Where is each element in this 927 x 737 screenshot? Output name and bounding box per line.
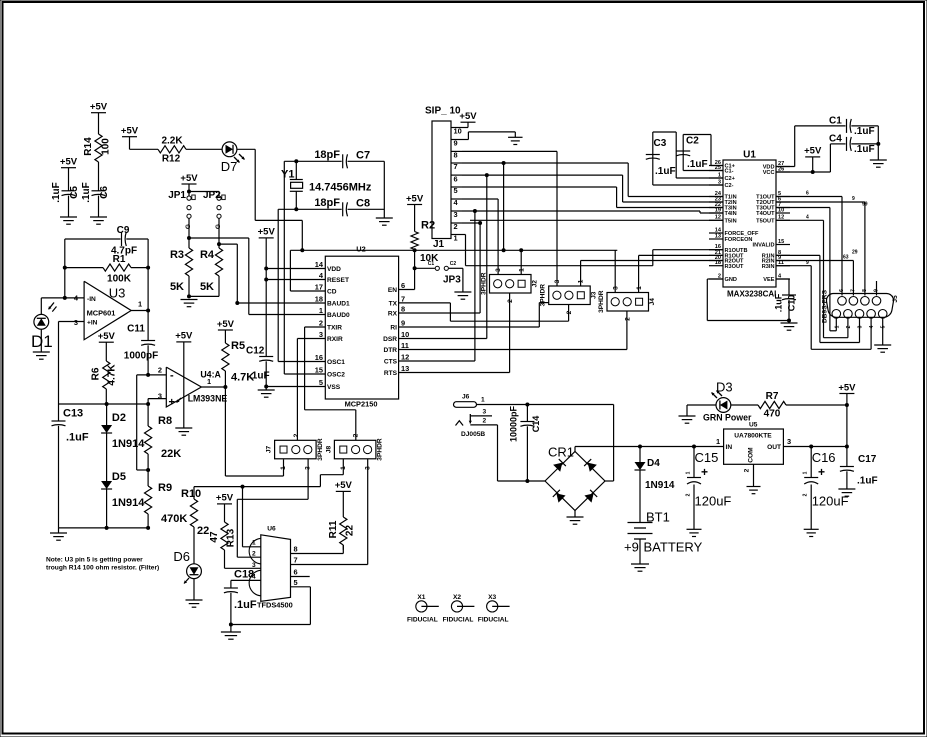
- svg-text:1000pF: 1000pF: [124, 351, 158, 362]
- svg-text:D3: D3: [716, 380, 733, 395]
- svg-text:47: 47: [209, 531, 220, 543]
- svg-text:8: 8: [454, 151, 458, 160]
- svg-text:VEE: VEE: [763, 277, 774, 283]
- svg-text:2: 2: [454, 222, 458, 231]
- resistor R5 4.7K: [222, 340, 254, 384]
- svg-text:1: 1: [207, 377, 211, 386]
- junction (pin7/CD drop): [502, 161, 506, 165]
- svg-text:VDD: VDD: [327, 266, 341, 273]
- svg-text:2: 2: [293, 433, 300, 437]
- svg-text:C2-: C2-: [725, 183, 734, 189]
- wire U4 out down to J7: [225, 387, 283, 476]
- svg-text:J5: J5: [892, 295, 899, 303]
- svg-text:GND: GND: [725, 277, 737, 283]
- wire DB9 pin5 to gnd: [882, 318, 884, 345]
- svg-text:EN: EN: [388, 287, 397, 294]
- junction (VCC +5V): [811, 170, 815, 174]
- wire C1 right: [851, 126, 878, 160]
- svg-text:1N914: 1N914: [645, 480, 675, 491]
- bridge rectifier CR1: [545, 445, 605, 511]
- diode D4 1N914: [635, 447, 675, 523]
- power +5V (J1.10): [459, 111, 477, 128]
- svg-text:RX: RX: [388, 311, 398, 318]
- svg-text:+5V: +5V: [335, 480, 353, 491]
- svg-text:FIDUCIAL: FIDUCIAL: [407, 617, 438, 624]
- svg-text:COM: COM: [748, 447, 755, 463]
- wire J6 pin1 down: [605, 405, 614, 482]
- svg-text:6: 6: [294, 568, 298, 577]
- diode D5 1N914: [101, 471, 145, 528]
- junction (C10 gnd): [787, 319, 791, 323]
- wire U5 COM to gnd: [753, 464, 755, 486]
- resistor R6 4.7K: [91, 361, 118, 389]
- wire DTR: [399, 311, 627, 350]
- net labels (DB9 wires): [806, 191, 868, 266]
- wire CD/EN net: [290, 249, 617, 251]
- svg-text:Note: U3 pin 5 is getting powe: Note: U3 pin 5 is getting power: [46, 557, 143, 564]
- svg-text:+5V: +5V: [98, 331, 116, 342]
- wire OSC1 riser: [277, 209, 279, 361]
- svg-text:U3: U3: [109, 286, 126, 301]
- svg-text:12: 12: [401, 353, 409, 362]
- junction (RX drop): [478, 221, 482, 225]
- wire T3OUT: [776, 208, 836, 331]
- resistor R8 22K: [145, 404, 182, 470]
- svg-text:FORCEON: FORCEON: [725, 237, 753, 243]
- svg-text:22: 22: [345, 525, 356, 537]
- svg-text:120uF: 120uF: [695, 494, 732, 509]
- svg-text:T5OUT: T5OUT: [756, 219, 775, 225]
- ground (DB9): [874, 345, 891, 352]
- svg-text:LM393NE: LM393NE: [188, 394, 228, 404]
- svg-text:Y1: Y1: [281, 169, 294, 181]
- wire U6.8 to R11: [291, 545, 344, 554]
- connector J7 3PHDR: [266, 433, 324, 470]
- junction (C11 bottom): [146, 373, 150, 377]
- junction (J2 pin1 join): [519, 248, 523, 252]
- connector J1 SIP_10: [425, 106, 462, 251]
- wire C6 to ground: [98, 196, 100, 217]
- svg-text:MCP601: MCP601: [87, 309, 116, 318]
- svg-text:15: 15: [315, 366, 323, 375]
- svg-text:+5V: +5V: [838, 382, 856, 393]
- junction (C18 bottom): [229, 623, 233, 627]
- svg-text:VCC: VCC: [763, 170, 775, 176]
- capacitor C7 18pF: [314, 149, 370, 168]
- svg-text:5K: 5K: [170, 281, 184, 293]
- wire U6.1 up: [243, 487, 261, 547]
- capacitor C10 .1uF: [774, 293, 797, 320]
- svg-text:2.2K: 2.2K: [161, 136, 183, 147]
- svg-text:5K: 5K: [200, 281, 214, 293]
- capacitor C11 1000pF: [124, 311, 158, 375]
- svg-text:C6: C6: [99, 186, 110, 199]
- wire T5OUT: [776, 220, 848, 337]
- svg-text:+5V: +5V: [216, 493, 234, 504]
- svg-text:+5V: +5V: [60, 157, 78, 168]
- capacitor C2 .1uF: [676, 135, 711, 171]
- svg-text:R3IN: R3IN: [762, 264, 775, 270]
- svg-text:C8: C8: [356, 198, 370, 210]
- junction (rail/+5V): [845, 445, 849, 449]
- wire D7 to CD/EN net: [237, 149, 302, 250]
- svg-text:C16: C16: [812, 450, 836, 465]
- svg-text:2: 2: [803, 493, 809, 496]
- svg-text:1N914: 1N914: [112, 497, 145, 509]
- power +5V (R13): [216, 493, 234, 522]
- svg-text:2: 2: [744, 468, 751, 472]
- svg-text:1: 1: [716, 437, 720, 446]
- wire C2+ line: [676, 177, 723, 179]
- svg-text:U5: U5: [749, 422, 758, 429]
- wire T5IN line: [470, 219, 723, 221]
- ground (R3/R4): [181, 300, 198, 307]
- power +5V (R6): [98, 331, 116, 361]
- svg-text:1: 1: [319, 306, 323, 315]
- wire J8.1 to R10: [194, 459, 343, 487]
- svg-text:OUT: OUT: [767, 444, 781, 451]
- wire gnd to D3: [687, 404, 716, 406]
- svg-text:3PHDR: 3PHDR: [377, 438, 384, 461]
- svg-text:GRN Power: GRN Power: [703, 412, 752, 422]
- svg-text:11: 11: [401, 341, 409, 350]
- wire feedback right to output: [147, 268, 149, 310]
- svg-text:2: 2: [483, 417, 487, 424]
- wire C8 right: [348, 208, 385, 210]
- wire DSR: [399, 175, 487, 338]
- svg-text:RI: RI: [390, 325, 397, 332]
- ground (J1.9): [508, 137, 523, 144]
- connector J2 3PHDR: [481, 268, 539, 303]
- wire R13 to U6.3: [225, 550, 261, 568]
- wire feedback top: [65, 238, 121, 240]
- svg-text:C1: C1: [428, 261, 435, 267]
- svg-text:18pF: 18pF: [314, 149, 340, 161]
- svg-text:1N914: 1N914: [112, 438, 145, 450]
- wire feedback left: [64, 239, 66, 298]
- svg-text:C10: C10: [787, 295, 797, 312]
- ground (C10): [781, 321, 798, 331]
- svg-text:7: 7: [294, 556, 298, 565]
- junction (CD bus join): [502, 248, 506, 252]
- svg-text:+5V: +5V: [175, 331, 193, 342]
- svg-text:X2: X2: [453, 594, 461, 601]
- svg-text:R5: R5: [231, 340, 245, 352]
- svg-text:R2: R2: [421, 220, 435, 232]
- wire TXIR: [305, 327, 356, 440]
- svg-text:3PHDR: 3PHDR: [598, 290, 605, 313]
- junction (RESET rail): [264, 278, 268, 282]
- svg-text:8: 8: [862, 289, 868, 292]
- svg-text:6: 6: [401, 281, 405, 290]
- wire R1OUTB line: [653, 249, 723, 251]
- wire U3 pin3: [59, 322, 85, 405]
- svg-text:7: 7: [401, 294, 405, 303]
- svg-text:3: 3: [454, 210, 458, 219]
- svg-text:R3: R3: [170, 249, 184, 261]
- svg-text:CD: CD: [327, 289, 337, 296]
- svg-text:3: 3: [612, 286, 619, 290]
- svg-text:J7: J7: [266, 446, 273, 454]
- wire J4.3 up: [614, 250, 616, 292]
- svg-text:4.7K: 4.7K: [107, 364, 118, 386]
- svg-text:1: 1: [280, 466, 287, 470]
- junction (R1 left): [63, 266, 67, 270]
- wire J2.1 up: [520, 250, 522, 274]
- jumper JP3: [415, 261, 463, 292]
- ground (C15): [687, 529, 702, 536]
- wire R7 to +5V: [786, 404, 847, 406]
- wire D1 to ground: [40, 329, 42, 352]
- svg-text:4: 4: [806, 214, 809, 220]
- svg-text:6: 6: [806, 191, 809, 197]
- wire R3 node to BAUD0 column: [189, 238, 249, 315]
- power +5V (R14 rail): [90, 102, 108, 135]
- svg-text:14.7456MHz: 14.7456MHz: [309, 182, 372, 194]
- svg-text:D6: D6: [173, 549, 190, 564]
- svg-text:U2: U2: [356, 245, 365, 254]
- wire R14 to C6: [98, 162, 100, 191]
- resistor R7 470: [758, 391, 786, 420]
- svg-text:C5: C5: [69, 186, 80, 199]
- junction (DSR drop): [485, 173, 489, 177]
- capacitor C9 4.7pF: [111, 225, 137, 257]
- capacitor C18 .1uF: [224, 569, 257, 625]
- junction (C14 top): [525, 403, 529, 407]
- junction (C15 top): [692, 445, 696, 449]
- junction (C4/gnd): [876, 142, 880, 146]
- svg-text:RXIR: RXIR: [327, 336, 343, 343]
- junction (U3 out): [146, 309, 150, 313]
- wire CTS: [399, 211, 475, 361]
- svg-text:BATTERY: BATTERY: [644, 540, 703, 555]
- wire RX: [399, 223, 481, 313]
- wire D1 to pin4: [41, 298, 65, 315]
- svg-text:R10: R10: [181, 488, 201, 500]
- resistor R9 470K: [145, 470, 188, 528]
- wire D6 to gnd: [193, 579, 195, 600]
- power +5V (R11): [335, 480, 353, 517]
- junction (R6/D2): [105, 402, 109, 406]
- ground (BT1): [631, 564, 649, 571]
- ground (C5): [60, 217, 77, 224]
- power +5V (U2 rail): [258, 227, 276, 357]
- svg-text:C2+: C2+: [725, 176, 736, 182]
- wire J1.3 to T4IN: [462, 211, 723, 213]
- ground (C17): [838, 489, 855, 496]
- LED D3: [703, 380, 752, 423]
- svg-text:RTS: RTS: [384, 370, 398, 377]
- svg-text:BAUD1: BAUD1: [327, 301, 350, 308]
- svg-text:TXIR: TXIR: [327, 325, 342, 332]
- IC U1 MAX3238CAI: [709, 150, 790, 299]
- wire U3 pin4: [65, 297, 84, 299]
- junction (D7 join): [300, 248, 304, 252]
- ground (C6): [90, 217, 107, 224]
- svg-text:2: 2: [158, 366, 162, 375]
- connector J3 3PHDR: [540, 279, 598, 314]
- svg-text:MAX3238CAI: MAX3238CAI: [727, 290, 776, 299]
- power +5V (R12): [121, 126, 139, 150]
- wire J3.1 to R2OUT: [581, 261, 723, 287]
- svg-text:J6: J6: [462, 393, 470, 400]
- svg-text:C1-: C1-: [725, 169, 734, 175]
- svg-text:MCP2150: MCP2150: [345, 400, 378, 409]
- ground (C1/C4): [870, 160, 887, 167]
- svg-text:3: 3: [74, 318, 78, 327]
- wire BAUD1: [235, 301, 325, 305]
- power +5V (JP1/JP2): [180, 173, 198, 196]
- svg-text:D5: D5: [112, 471, 126, 483]
- wire R6 bottom: [105, 389, 107, 404]
- svg-text:7: 7: [850, 289, 856, 292]
- svg-text:4: 4: [869, 325, 875, 328]
- junction (D5 bottom): [105, 526, 109, 530]
- ground (C7/C8): [376, 218, 393, 225]
- wire OSC1: [278, 361, 325, 363]
- ground (D6): [186, 600, 203, 607]
- connector J6 DJ005B: [454, 393, 614, 438]
- wire JP2 to R4 node: [218, 218, 220, 248]
- svg-text:FIDUCIAL: FIDUCIAL: [478, 617, 509, 624]
- wire U6.6 stub: [291, 576, 310, 578]
- wire J1.7 to CD bus: [503, 163, 505, 250]
- wire R1IN: [776, 255, 860, 342]
- wire J8.3 to U6.7: [291, 459, 368, 565]
- wire U4 pin2: [137, 375, 167, 470]
- svg-text:T5IN: T5IN: [725, 219, 737, 225]
- svg-text:.1uF: .1uF: [249, 371, 270, 382]
- svg-text:470K: 470K: [161, 513, 187, 525]
- svg-text:-IN: -IN: [87, 296, 96, 303]
- svg-text:C4: C4: [829, 134, 842, 145]
- svg-text:3PHDR: 3PHDR: [481, 272, 488, 295]
- svg-text:R11: R11: [328, 520, 339, 538]
- svg-text:5: 5: [294, 578, 298, 587]
- svg-text:C9: C9: [117, 225, 130, 236]
- wire T1OUT: [776, 197, 842, 296]
- capacitor C3 .1uF: [646, 132, 676, 185]
- op-amp U3: [74, 281, 142, 340]
- capacitor C16 120uF: [803, 447, 849, 530]
- svg-text:J1: J1: [433, 239, 445, 250]
- ground (U5): [747, 487, 761, 494]
- wire C2- line: [653, 184, 723, 186]
- svg-text:.1uF: .1uF: [66, 432, 89, 444]
- svg-text:R7: R7: [766, 391, 779, 402]
- svg-text:X3: X3: [488, 594, 496, 601]
- svg-text:+5V: +5V: [804, 146, 822, 157]
- svg-text:C3: C3: [654, 138, 667, 149]
- wire CR1 bottom to gnd: [574, 511, 576, 518]
- svg-text:R13: R13: [226, 528, 237, 547]
- wire JP1 to R3 node: [188, 218, 190, 248]
- wire C7 line: [284, 160, 341, 162]
- junction (R8/R9): [146, 468, 150, 472]
- svg-text:3: 3: [787, 437, 791, 446]
- svg-text:JP2: JP2: [203, 190, 221, 201]
- wire RXIR: [297, 339, 325, 441]
- LED D6: [173, 549, 201, 584]
- wire U5 out rail: [783, 446, 847, 448]
- wire J6 pin2 down: [498, 425, 546, 481]
- power +5V (C5): [60, 157, 78, 191]
- resistor R13 47: [209, 522, 237, 550]
- svg-text:+5V: +5V: [406, 193, 424, 204]
- junction (JP1 top): [187, 190, 191, 194]
- wire VDD to C1: [776, 126, 846, 167]
- junction (pin3 node): [146, 402, 150, 406]
- jumper JP1: [168, 190, 195, 229]
- comparator U4:A: [158, 366, 228, 409]
- wire RTS: [399, 293, 510, 373]
- svg-text:R14: R14: [83, 137, 94, 156]
- svg-text:+5V: +5V: [180, 173, 198, 184]
- svg-text:9: 9: [806, 260, 809, 266]
- svg-text:22K: 22K: [161, 448, 181, 460]
- svg-text:3: 3: [554, 279, 561, 283]
- junction (JP3 tee): [413, 266, 417, 270]
- wire R5 bottom: [224, 371, 226, 387]
- svg-text:C7: C7: [356, 150, 370, 162]
- svg-text:JP1: JP1: [168, 190, 186, 201]
- junction (R9 bottom): [146, 526, 150, 530]
- wire U4 pin3: [148, 399, 166, 404]
- svg-text:R1: R1: [113, 254, 126, 265]
- svg-text:2: 2: [686, 493, 692, 496]
- svg-text:J3: J3: [591, 291, 598, 299]
- capacitor C5 .1uF: [51, 182, 80, 203]
- wire J1.5 to T3IN: [462, 187, 723, 208]
- resistor R14 100: [83, 134, 112, 162]
- svg-text:2: 2: [624, 317, 631, 321]
- wire R2/EN: [399, 250, 415, 290]
- fiducial X3: [478, 594, 510, 624]
- svg-text:10000pF: 10000pF: [509, 405, 519, 442]
- wire J4.1 to R1OUT: [639, 255, 723, 292]
- svg-text:OSC2: OSC2: [327, 372, 345, 379]
- svg-text:+IN: +IN: [87, 319, 98, 326]
- junction (VDD rail): [264, 267, 268, 271]
- svg-text:100K: 100K: [107, 274, 132, 285]
- capacitor C6 .1uF: [81, 182, 110, 203]
- svg-text:X1: X1: [417, 594, 425, 601]
- wire node A rail: [59, 403, 149, 405]
- junction (Y1 top): [294, 159, 298, 163]
- wire CD: [290, 250, 325, 291]
- junction (out/R5): [223, 385, 227, 389]
- svg-text:CTS: CTS: [384, 359, 398, 366]
- resistor R10 22: [181, 487, 209, 564]
- junction (R2 join): [413, 248, 417, 252]
- svg-text:T4OUT: T4OUT: [756, 211, 775, 217]
- wire J2.3 up: [497, 199, 499, 275]
- fiducial X1: [407, 594, 439, 624]
- ground (bottom rail): [50, 528, 67, 540]
- svg-text:1: 1: [636, 286, 643, 290]
- svg-text:C11: C11: [127, 324, 145, 335]
- svg-text:2: 2: [507, 299, 514, 303]
- svg-text:+5V: +5V: [121, 126, 139, 137]
- svg-text:5: 5: [881, 325, 887, 328]
- svg-text:+5V: +5V: [459, 111, 477, 122]
- IC U2 MCP2150: [315, 245, 409, 409]
- wire J1.2 to RX: [462, 222, 480, 224]
- svg-text:DB9S-FRS: DB9S-FRS: [822, 289, 829, 323]
- svg-text:T4IN: T4IN: [725, 211, 737, 217]
- svg-text:1: 1: [454, 234, 458, 243]
- junction (R1 right): [146, 266, 150, 270]
